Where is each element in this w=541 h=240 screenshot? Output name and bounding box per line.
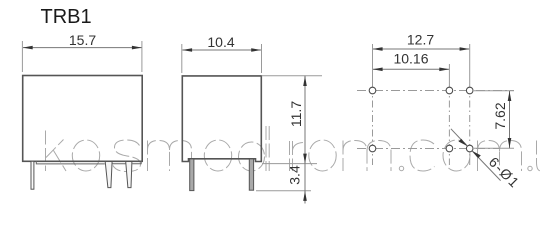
leader line lower: [472, 151, 501, 181]
o: [309, 140, 336, 171]
m: [148, 141, 192, 172]
arrow left: [182, 48, 192, 52]
pin 3 (tapered): [126, 162, 132, 188]
extension line left: [181, 44, 183, 73]
c: [410, 140, 435, 171]
pin 5 (side right): [249, 159, 253, 190]
bottom rim: [36, 161, 141, 164]
dim line 3.4 segment: [304, 164, 306, 204]
extension line left: [21, 41, 23, 72]
dim line 15.7: [23, 47, 142, 49]
o: [443, 140, 470, 171]
arrow right: [251, 48, 261, 52]
hole B3: [466, 145, 473, 152]
period 2: [528, 166, 532, 170]
hole B2: [446, 145, 453, 152]
vertical centerline col 2: [448, 64, 450, 86]
arrow 11.7 bottom / 3.4 top: [303, 154, 307, 164]
extension line right: [141, 41, 143, 72]
d: [239, 142, 265, 171]
r: [290, 141, 305, 171]
dim line 10.4: [182, 49, 261, 51]
arrow 11.7 top: [303, 76, 307, 86]
svg-text:15.7: 15.7: [69, 32, 96, 48]
ext line 7.62 bottom: [474, 147, 514, 149]
ext line body bottom right: [262, 163, 317, 165]
svg-text:11.7: 11.7: [288, 101, 304, 127]
ext line 7.62 top: [474, 90, 514, 92]
relay body side with feet: [182, 76, 261, 162]
svg-text:7.62: 7.62: [492, 102, 508, 129]
horizontal centerline row 2: [357, 148, 500, 150]
watermark kosmodrom.com.ua (hand drawn thin outline letters): [46, 126, 541, 172]
s: [113, 140, 141, 172]
pin 1 (thin, left): [31, 161, 34, 189]
hole A3: [466, 87, 473, 94]
svg-text:10.16: 10.16: [393, 51, 428, 67]
svg-text:12.7: 12.7: [407, 32, 434, 48]
k: [46, 131, 67, 172]
svg-text:TRB1: TRB1: [41, 6, 92, 28]
svg-text:6-Ø1: 6-Ø1: [486, 154, 524, 192]
period: [399, 166, 403, 170]
dim line 10.16: [373, 68, 449, 70]
arrow right: [132, 46, 142, 50]
arrow 3.4 bottom (points up from below): [303, 191, 307, 201]
svg-text:10.4: 10.4: [207, 34, 234, 50]
o: [72, 140, 99, 171]
extension line right: [261, 44, 263, 73]
dim line 12.7: [373, 48, 469, 50]
hole A2: [446, 87, 453, 94]
vertical centerline col 3: [469, 44, 471, 86]
dim line 11.7: [304, 76, 306, 164]
ext line pin tips: [256, 190, 311, 192]
m: [343, 141, 391, 172]
leader line upper: [451, 129, 467, 146]
hole A1: [369, 87, 376, 94]
horizontal centerline row 1: [357, 90, 514, 92]
dim line 7.62: [509, 91, 511, 149]
pin 4 (side left): [190, 159, 194, 191]
arrow left: [23, 46, 33, 50]
vertical centerline col 1: [372, 44, 374, 86]
o: [204, 140, 231, 171]
svg-text:3.4: 3.4: [287, 165, 303, 185]
relay body front: [23, 76, 143, 162]
hole B1: [369, 145, 376, 152]
m: [478, 141, 522, 172]
u (partial at edge): [537, 141, 541, 172]
ext line body top right: [262, 75, 323, 77]
pin 2 (tapered): [105, 162, 112, 188]
